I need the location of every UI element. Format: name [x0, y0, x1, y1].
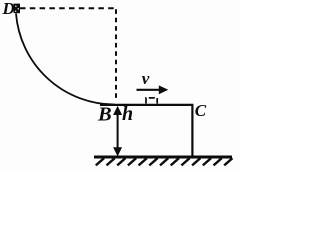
svg-text:D: D [2, 0, 15, 18]
svg-text:v: v [142, 69, 150, 88]
svg-text:B: B [97, 104, 112, 126]
svg-text:C: C [195, 101, 207, 120]
svg-text:h: h [122, 103, 133, 125]
